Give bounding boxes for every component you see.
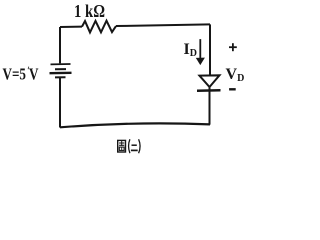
svg-text:1 kΩ: 1 kΩ [74, 1, 105, 21]
svg-text:ID: ID [184, 41, 197, 59]
svg-text:V=5 V: V=5 V [3, 65, 40, 84]
svg-text:VD: VD [226, 66, 245, 84]
